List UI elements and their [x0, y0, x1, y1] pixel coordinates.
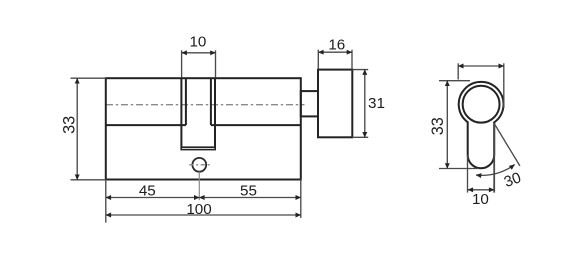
svg-text:33: 33 — [60, 116, 78, 134]
svg-text:30: 30 — [502, 169, 524, 191]
svg-text:31: 31 — [368, 95, 385, 112]
svg-text:10: 10 — [472, 191, 489, 208]
svg-text:45: 45 — [139, 182, 156, 199]
svg-text:10: 10 — [189, 34, 206, 51]
svg-text:33: 33 — [429, 117, 447, 135]
svg-text:55: 55 — [240, 182, 257, 199]
svg-text:16: 16 — [328, 37, 345, 54]
svg-text:100: 100 — [186, 201, 211, 218]
